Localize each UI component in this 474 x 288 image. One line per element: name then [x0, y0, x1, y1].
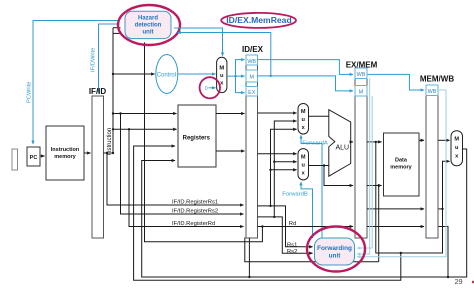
wire ForwardA control (blue) — [301, 135, 322, 238]
Registers block — [178, 105, 216, 167]
svg-text:IF/ID.RegisterRd: IF/ID.RegisterRd — [172, 221, 215, 227]
wire mux B to ALU — [309, 165, 330, 167]
wire IF/DWrite (blue, hazard unit to IF/ID) — [99, 24, 120, 93]
svg-text:unit: unit — [329, 252, 342, 259]
wire read data 2 to ID/EX — [216, 150, 245, 152]
ID/EX EX box — [246, 87, 258, 97]
stall mux — [217, 57, 227, 92]
svg-text:Control: Control — [157, 72, 176, 78]
svg-text:Instruction: Instruction — [107, 128, 113, 156]
svg-text:memory: memory — [54, 154, 76, 160]
wire EX/MEM ALU result to MEM/WB — [367, 208, 424, 210]
svg-text:0: 0 — [205, 86, 208, 92]
MEM/WB pipeline register — [420, 74, 454, 238]
wire EX/MEM WB control down to forwarding unit (cyan) — [357, 79, 370, 255]
wire Rd through EX/MEM to MEM/WB — [258, 227, 449, 278]
wire instruction memory to IF/ID — [84, 152, 91, 154]
wire MEM/WB to write-back mux — [438, 139, 450, 141]
svg-text:M: M — [249, 75, 254, 81]
svg-text:IF/ID.RegisterRs2: IF/ID.RegisterRs2 — [172, 209, 218, 215]
svg-text:Rs2: Rs2 — [287, 249, 297, 255]
wire mux A to ALU — [309, 115, 330, 117]
svg-text:memory: memory — [390, 165, 412, 171]
svg-text:Data: Data — [395, 158, 408, 164]
wire hazard unit to stall mux (blue) — [174, 28, 223, 56]
svg-text:M: M — [301, 109, 306, 115]
wire write data (bottom loop to Registers) — [134, 146, 401, 280]
zero input to stall mux — [205, 86, 216, 92]
svg-text:ID/EX: ID/EX — [242, 45, 264, 54]
svg-text:M: M — [454, 137, 459, 143]
wire read register 1 — [113, 113, 177, 115]
EX/MEM pipeline register — [346, 60, 378, 238]
wire Control to stall mux (blue) — [178, 73, 216, 75]
wire EX/MEM M control down to forwarding unit (cyan) — [357, 96, 372, 248]
ALU — [329, 110, 351, 177]
wire EX/MEM forward path to muxes — [274, 121, 296, 217]
node instruction bus riser — [113, 28, 121, 153]
wire IF/ID.RegisterRs2 — [121, 114, 244, 215]
svg-text:IF/DWrite: IF/DWrite — [91, 48, 97, 72]
PC register — [27, 147, 40, 166]
red ellipse around ID/EX.MemRead — [221, 13, 296, 28]
svg-text:Forwarding: Forwarding — [317, 245, 352, 252]
svg-text:29: 29 — [454, 277, 462, 286]
instruction memory — [46, 126, 84, 180]
svg-text:unit: unit — [143, 30, 154, 36]
wire Rt to hazard detection loop — [145, 43, 263, 242]
svg-text:PCWrite: PCWrite — [27, 82, 33, 103]
wire EX/MEM to data memory write data — [367, 185, 382, 187]
svg-text:u: u — [301, 117, 305, 123]
svg-text:EX: EX — [248, 90, 256, 96]
wire ID/EX M to EX/MEM M (blue) — [258, 76, 354, 91]
wire ForwardB control (blue) — [301, 182, 313, 238]
svg-text:ID/EX.MemRead: ID/EX.MemRead — [226, 15, 291, 25]
svg-text:WB: WB — [428, 89, 437, 95]
wire ID/EX.MemRead to hazard unit (blue) — [178, 33, 271, 76]
EX/MEM M box — [355, 86, 367, 97]
wire read register 2 — [113, 128, 177, 130]
IF/ID pipeline register — [89, 87, 107, 238]
red circle around hazard detection unit — [118, 5, 180, 45]
wire IF/ID out to instruction bus — [104, 152, 114, 154]
MEM/WB WB box — [426, 85, 438, 96]
wire write register (bottom loop to Registers) — [142, 149, 467, 277]
svg-text:WB: WB — [247, 59, 256, 65]
write-back mux — [451, 131, 463, 166]
svg-text:detection: detection — [135, 23, 162, 29]
ID/EX WB box — [246, 55, 258, 65]
svg-text:ForwardA: ForwardA — [302, 141, 328, 147]
wire ID/EX Rs1 to forwarding unit — [258, 206, 313, 247]
wire IF/ID.RegisterRs1 — [107, 153, 244, 205]
hazard detection unit — [125, 11, 171, 38]
wire EX/MEM to data memory address — [367, 141, 382, 143]
svg-text:IF/ID.RegisterRs1: IF/ID.RegisterRs1 — [172, 199, 218, 205]
wire MEM/WB WB control down to forwarding unit (cyan) — [357, 90, 446, 257]
partial mux at left edge — [12, 149, 18, 170]
wire ID/EX to forward mux B input 1 — [258, 153, 297, 155]
svg-text:WB: WB — [357, 72, 366, 78]
ID/EX M box — [246, 70, 258, 82]
wire read data 1 to ID/EX — [216, 113, 245, 115]
wire EX/MEM WB to MEM/WB WB (blue) — [367, 74, 424, 90]
svg-text:u: u — [455, 145, 459, 151]
wire stall mux to ID/EX control boxes (blue) — [227, 60, 245, 93]
wire MEM/WB value riser from write-back line — [271, 129, 297, 206]
svg-text:u: u — [220, 73, 224, 79]
svg-text:IF/ID: IF/ID — [89, 87, 107, 96]
svg-text:Instruction: Instruction — [51, 147, 80, 153]
wire instruction to hazard unit (up arrow) — [144, 43, 146, 242]
svg-text:M: M — [301, 155, 306, 161]
forward mux B — [298, 149, 309, 180]
svg-text:MEM/WB: MEM/WB — [420, 74, 454, 83]
wire MEM/WB out to mux riser — [438, 208, 443, 210]
ID/EX pipeline register — [242, 45, 264, 238]
wire ALU result to EX/MEM — [351, 141, 353, 143]
svg-text:M: M — [359, 90, 364, 96]
wire IF/ID.RegisterRd — [129, 129, 244, 226]
wire data memory read data to MEM/WB — [419, 139, 424, 141]
data memory — [384, 133, 420, 196]
forward mux A — [298, 104, 309, 135]
red circle around zero — [200, 77, 220, 98]
wire PC to instruction memory — [40, 155, 45, 157]
svg-text:PC: PC — [30, 155, 38, 161]
red corner mark — [472, 281, 474, 283]
svg-text:Rs1: Rs1 — [287, 242, 297, 248]
wire PCWrite (blue, hazard unit to PC) — [33, 21, 120, 145]
EX/MEM WB box — [355, 68, 367, 79]
svg-text:Rd: Rd — [289, 221, 296, 227]
svg-text:Hazard: Hazard — [138, 16, 158, 22]
svg-text:ForwardB: ForwardB — [282, 191, 308, 197]
svg-text:Registers: Registers — [183, 136, 211, 142]
wire store data to EX/MEM — [324, 166, 353, 186]
wire ID/EX Rs2 to forwarding unit — [258, 217, 313, 253]
wire ID/EX register bottom drop to memory stage — [245, 238, 379, 278]
svg-text:u: u — [301, 163, 305, 169]
svg-text:ALU: ALU — [335, 144, 349, 151]
wire instruction to Control — [113, 73, 155, 75]
wire ID/EX WB to EX/MEM WB (blue) — [258, 60, 354, 75]
svg-text:M: M — [219, 66, 224, 72]
wire EX/MEM ALU result down to forward line — [376, 142, 450, 262]
wire ID/EX to forward mux A input 1 — [258, 112, 297, 114]
forwarding unit — [315, 238, 355, 265]
Control oval — [156, 55, 178, 94]
red circle around forwarding unit — [307, 227, 365, 272]
